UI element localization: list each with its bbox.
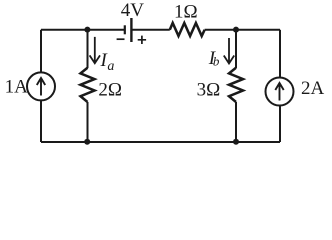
- svg-text:1A: 1A: [5, 76, 29, 97]
- node C junction dot bottom of 2-ohm: [84, 139, 90, 145]
- node A junction dot top of 2-ohm: [84, 27, 90, 33]
- current source I1 arrow: [37, 78, 45, 96]
- wire 2-ohm branch lower: [87, 102, 89, 142]
- svg-text:2Ω: 2Ω: [98, 80, 122, 101]
- wire from resistor R1 to top-right corner: [205, 29, 280, 31]
- wire left side lower (1A source to bottom): [40, 100, 42, 142]
- svg-text:4V: 4V: [121, 0, 145, 21]
- wire 2-ohm branch upper: [87, 30, 89, 68]
- resistor R1 1-ohm zigzag: [170, 23, 205, 36]
- wire bottom: [41, 141, 280, 143]
- wire 3-ohm branch upper: [235, 30, 237, 68]
- wire top-right segment from battery to resistor R1: [133, 29, 170, 31]
- wire right side lower (2A source to bottom): [279, 105, 281, 142]
- svg-text:Ia: Ia: [100, 50, 115, 74]
- wire left side upper (corner to 1A source): [40, 30, 42, 73]
- svg-text:3Ω: 3Ω: [197, 80, 221, 101]
- resistor R3 3-ohm zigzag: [229, 68, 243, 102]
- current Ib arrow: [224, 38, 234, 64]
- battery V1 positive long plate: [130, 18, 132, 42]
- current source I2 2A circle: [266, 78, 294, 106]
- wire top-left segment: [41, 29, 124, 31]
- current source I1 1A circle: [27, 72, 55, 100]
- svg-text:2A: 2A: [301, 78, 325, 99]
- current source I2 arrow: [275, 83, 283, 101]
- battery minus sign: [117, 38, 125, 40]
- battery V1 negative short plate: [124, 25, 126, 34]
- svg-text:1Ω: 1Ω: [174, 2, 198, 23]
- current Ia arrow: [90, 37, 100, 63]
- resistor R2 2-ohm zigzag: [81, 68, 95, 102]
- svg-text:Ib: Ib: [208, 48, 220, 69]
- battery plus sign: [138, 36, 146, 44]
- node D junction dot bottom of 3-ohm: [233, 139, 239, 145]
- node B junction dot top of 3-ohm: [233, 27, 239, 33]
- wire right side upper (corner to 2A source): [279, 30, 281, 78]
- wire 3-ohm branch lower: [235, 102, 237, 142]
